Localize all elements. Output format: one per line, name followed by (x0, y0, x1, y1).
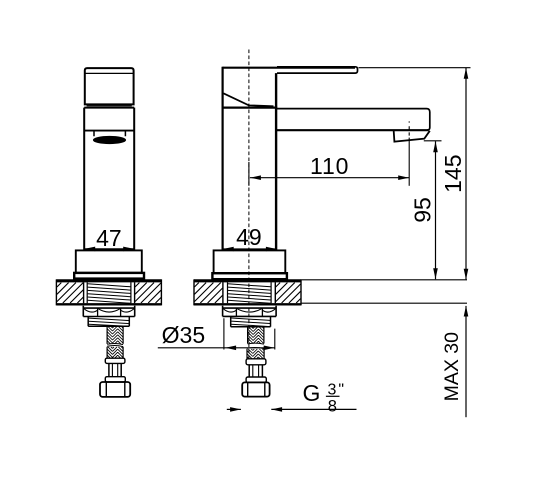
hose break symbol (side view) (247, 343, 264, 348)
aerator outlet (side view) (394, 131, 430, 142)
mounting base (front view) (76, 250, 142, 272)
dimension G 3/8 inch (hose thread) (227, 380, 357, 415)
svg-text:8: 8 (328, 397, 337, 415)
faucet handle (front view) (85, 68, 134, 106)
hose connection nut (front view) (100, 382, 130, 397)
svg-text:Ø35: Ø35 (162, 322, 205, 348)
svg-text:MAX 30: MAX 30 (441, 332, 463, 402)
braided supply hose lower (side view) (247, 349, 264, 359)
spout bottom edge (front view) (84, 130, 134, 132)
spout (side view) (277, 109, 430, 131)
svg-text:145: 145 (440, 155, 466, 193)
threaded collar (side view) (231, 316, 271, 326)
braided supply hose upper (front view) (107, 326, 123, 344)
lever handle (side view) (222, 67, 357, 106)
dimension 47 (body width, front view) (84, 225, 134, 251)
base plate (front view) (74, 273, 144, 279)
faucet body (front view) (84, 108, 134, 251)
mounting locknut (front view) (83, 306, 134, 317)
hose connection nut (side view) (242, 382, 269, 396)
braided supply hose upper (side view) (248, 327, 264, 344)
aerator centerline (side view) (408, 121, 410, 185)
dimension MAX 30 (counter thickness) (301, 303, 468, 417)
dimension 110 (spout reach) (250, 153, 409, 180)
countertop section (side view) (194, 279, 301, 305)
aerator (front view) (93, 131, 125, 143)
threaded collar (front view) (88, 317, 129, 327)
body centerline (side view) (248, 50, 250, 360)
dimension 49 (body depth, side view) (223, 224, 277, 252)
countertop hatching left block (front view) (57, 283, 83, 303)
dimension 95 (spout height) (409, 141, 441, 279)
countertop hatching right block (front view) (135, 283, 161, 303)
svg-text:110: 110 (310, 153, 349, 179)
dimension 145 (total height) (301, 68, 470, 280)
faucet body (side view) (223, 67, 277, 251)
hose ferrule upper (front view) (105, 358, 125, 363)
svg-text:95: 95 (409, 197, 435, 223)
hose end pipe (side view) (249, 365, 262, 377)
dimension Ø35 (mounting hole) (158, 318, 275, 350)
hose ferrule upper (side view) (246, 359, 266, 365)
mounting base (side view) (214, 250, 286, 273)
countertop hatching left block (side view) (194, 283, 222, 303)
hose end pipe (front view) (109, 363, 121, 376)
mounting locknut (side view) (223, 306, 277, 317)
hose ferrule lower (front view) (105, 377, 125, 382)
countertop hatching right block (side view) (276, 283, 301, 303)
threaded shank (side view) (228, 282, 272, 303)
braided supply hose lower (front view) (107, 347, 123, 359)
countertop section (front view) (56, 279, 161, 305)
base plate (side view) (212, 273, 287, 279)
svg-text:G: G (303, 380, 321, 406)
svg-text:": " (338, 381, 344, 398)
hose ferrule lower (side view) (246, 377, 266, 382)
hose break symbol (front view) (107, 344, 123, 347)
cartridge ring / body top (side view) (222, 106, 278, 108)
threaded shank (front view) (87, 282, 131, 303)
svg-text:49: 49 (236, 224, 262, 250)
svg-text:47: 47 (96, 225, 122, 251)
